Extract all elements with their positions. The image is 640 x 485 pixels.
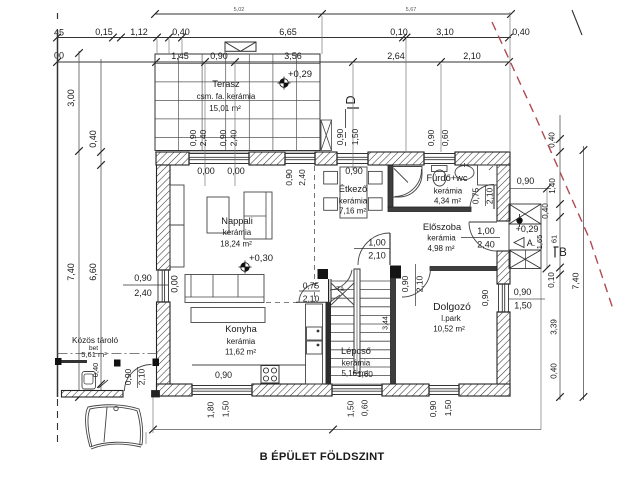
svg-text:0,90: 0,90	[514, 287, 532, 297]
entry landing steps	[509, 204, 541, 269]
level marker +0,29 entry	[516, 217, 522, 223]
svg-text:2,40: 2,40	[477, 240, 495, 250]
svg-text:0,90: 0,90	[134, 273, 152, 283]
svg-text:2,40: 2,40	[198, 129, 208, 146]
top wall / right corner	[455, 152, 510, 165]
svg-text:Étkező: Étkező	[339, 184, 367, 194]
svg-text:0,40: 0,40	[88, 130, 98, 148]
left dim line 0,40/6,60	[100, 59, 102, 397]
svg-text:1,50: 1,50	[350, 128, 360, 145]
dim row 1 top	[155, 13, 511, 15]
storage post 3	[153, 359, 160, 367]
svg-text:1,50: 1,50	[346, 400, 356, 417]
door bathroom 0,75/2,10	[493, 185, 495, 209]
right wall lower	[497, 312, 510, 396]
svg-text:0,40: 0,40	[541, 203, 550, 219]
svg-text:kerámia: kerámia	[434, 187, 463, 196]
chair etkezo 1	[324, 171, 338, 184]
left wall upper	[157, 165, 171, 270]
svg-text:5,02: 5,02	[234, 7, 245, 13]
svg-text:15,01 m²: 15,01 m²	[209, 104, 241, 113]
entry door 1,00/2,40	[469, 221, 497, 223]
svg-text:0,90: 0,90	[188, 129, 198, 146]
stair x brace	[331, 283, 354, 305]
top wall segment 3	[315, 152, 337, 165]
svg-text:Dolgozó: Dolgozó	[433, 302, 471, 313]
svg-text:00: 00	[54, 51, 64, 61]
svg-text:Fürdő+wc: Fürdő+wc	[426, 173, 467, 183]
window etkezo left	[285, 152, 315, 165]
svg-text:7,40: 7,40	[571, 272, 581, 289]
svg-text:0,90: 0,90	[517, 176, 535, 186]
svg-text:61: 61	[550, 235, 559, 243]
stair center divider	[354, 269, 360, 373]
top wall segment 2	[249, 152, 285, 165]
bottom dim line	[153, 429, 541, 431]
svg-text:1,65: 1,65	[535, 235, 544, 250]
svg-text:0,90: 0,90	[210, 51, 228, 61]
svg-text:0,75: 0,75	[303, 281, 320, 291]
kitchen counter bottom	[192, 364, 306, 366]
svg-text:+0,29: +0,29	[516, 224, 539, 234]
bottom wall left corner	[157, 384, 193, 396]
bottom wall segment 3	[382, 384, 429, 396]
right dim line inner	[559, 115, 561, 400]
dashed partition nappali/etkezo	[314, 166, 316, 302]
terrace floor grid Terasz	[155, 54, 320, 152]
svg-text:kerámia: kerámia	[342, 359, 371, 368]
svg-text:2,40: 2,40	[297, 169, 307, 186]
right dim connector line	[546, 189, 548, 269]
dining table etkezo	[340, 167, 367, 218]
svg-text:1,50: 1,50	[221, 400, 231, 417]
svg-text:kerámia: kerámia	[227, 337, 256, 346]
shower	[392, 167, 422, 198]
svg-text:1,00: 1,00	[477, 226, 495, 236]
door etkezo to stair hall 1,00/2,10	[389, 233, 391, 265]
svg-text:+0,30: +0,30	[249, 253, 273, 264]
window etkezo right	[337, 152, 368, 165]
window stairs bottom	[332, 384, 382, 396]
svg-text:0,60: 0,60	[440, 129, 450, 146]
svg-text:0,90: 0,90	[426, 129, 436, 146]
svg-text:Lépcső: Lépcső	[341, 346, 371, 356]
svg-text:10,52 m²: 10,52 m²	[433, 325, 465, 334]
window bathroom	[424, 152, 455, 165]
bottom wall segment 2	[252, 384, 332, 396]
washbasin bathroom	[455, 166, 474, 180]
stair treads Lepcso	[331, 281, 391, 384]
svg-text:0,75: 0,75	[471, 187, 481, 204]
table konyha	[191, 308, 265, 323]
svg-text:3,10: 3,10	[436, 27, 454, 37]
chair etkezo 3	[324, 198, 338, 211]
svg-text:0,10: 0,10	[547, 272, 556, 288]
stair right wall / dolgozo wall	[391, 278, 396, 384]
toilet	[432, 166, 448, 172]
chair etkezo 4	[368, 198, 382, 211]
top wall segment left corner	[156, 152, 189, 165]
black diagonal mark top right	[572, 10, 582, 35]
svg-text:l.park: l.park	[441, 314, 462, 323]
svg-text:+0,29: +0,29	[288, 69, 312, 80]
storage post 1	[55, 358, 62, 365]
section arrow A	[514, 238, 524, 248]
svg-text:6,60: 6,60	[88, 263, 98, 281]
svg-text:3,56: 3,56	[284, 51, 302, 61]
svg-text:2,10: 2,10	[368, 251, 386, 261]
kitchen counter right with sink	[306, 304, 323, 384]
door dolgozo 0,90/2,10	[402, 268, 431, 297]
storage bottom wall right	[152, 391, 160, 398]
svg-text:kerámia: kerámia	[339, 197, 368, 206]
door konyha 0,75/2,10	[299, 284, 318, 303]
svg-text:1,50: 1,50	[514, 301, 532, 311]
svg-text:0,15: 0,15	[95, 27, 113, 37]
washing machine	[478, 165, 498, 185]
svg-text:1,12: 1,12	[130, 27, 148, 37]
stair left wall	[328, 279, 330, 302]
dim row 2 top	[57, 37, 511, 39]
interior wall etkezo/bathroom	[388, 165, 393, 208]
window dolgozo bottom	[429, 384, 459, 396]
svg-text:0,60: 0,60	[360, 399, 370, 416]
svg-text:0,40: 0,40	[512, 27, 530, 37]
car	[86, 405, 143, 449]
svg-text:2,10: 2,10	[485, 187, 495, 204]
stair wall block right	[390, 266, 401, 279]
svg-text:0,40: 0,40	[91, 363, 100, 378]
svg-text:0,90: 0,90	[284, 169, 294, 186]
svg-text:A.: A.	[527, 238, 536, 248]
level marker +0,29 terrace	[278, 77, 291, 90]
storage washbasin	[82, 372, 96, 390]
armchair nappali	[207, 197, 229, 233]
svg-text:7,16 m²: 7,16 m²	[339, 207, 366, 216]
svg-text:2,10: 2,10	[415, 275, 425, 292]
storage dashed roof line	[58, 353, 159, 355]
svg-text:0,90: 0,90	[215, 370, 232, 380]
svg-text:1,00: 1,00	[368, 238, 386, 248]
svg-text:1,80: 1,80	[206, 401, 216, 418]
window konyha bottom	[192, 384, 252, 396]
interior wall bathroom bottom	[388, 207, 471, 212]
red setback dashed line	[492, 22, 614, 312]
roof mark above terrace	[225, 42, 256, 51]
dashed partition nappali/konyha	[266, 302, 299, 304]
window nappali left	[157, 270, 171, 302]
svg-text:csm. fa. kerámia: csm. fa. kerámia	[197, 92, 256, 101]
svg-text:0,90: 0,90	[428, 400, 438, 417]
svg-text:45: 45	[54, 28, 64, 38]
svg-text:3,00: 3,00	[66, 89, 76, 107]
svg-text:0,90: 0,90	[345, 166, 363, 176]
svg-text:Nappali: Nappali	[221, 216, 253, 226]
svg-text:4,98 m²: 4,98 m²	[427, 244, 454, 253]
svg-text:Terasz: Terasz	[212, 79, 240, 89]
dim row 3 top	[57, 61, 510, 63]
svg-text:kerámia: kerámia	[223, 228, 252, 237]
svg-text:1,50: 1,50	[443, 399, 453, 416]
svg-text:11,62 m²: 11,62 m²	[225, 348, 256, 357]
svg-text:0,90: 0,90	[400, 275, 410, 292]
svg-text:0,00: 0,00	[227, 166, 245, 176]
right wall mid	[497, 251, 510, 284]
svg-text:2,64: 2,64	[387, 51, 405, 61]
level marker +0,30 nappali	[239, 261, 252, 274]
svg-text:kerámia: kerámia	[427, 234, 456, 243]
left dim line 3,00/7,40	[78, 51, 80, 397]
chair etkezo 2	[368, 171, 382, 184]
svg-text:3,39: 3,39	[550, 319, 559, 335]
svg-text:D: D	[344, 95, 358, 104]
svg-text:2,40: 2,40	[229, 129, 239, 146]
corner sofa nappali	[244, 192, 272, 239]
right wall upper	[497, 165, 510, 221]
svg-text:0,00: 0,00	[170, 275, 180, 293]
svg-text:7,40: 7,40	[66, 263, 76, 281]
svg-text:3,44: 3,44	[383, 316, 390, 330]
svg-text:0,40: 0,40	[172, 27, 190, 37]
left wall lower	[157, 302, 171, 396]
svg-text:2,40: 2,40	[134, 288, 152, 298]
storage post 2	[114, 360, 121, 367]
svg-text:18,24 m²: 18,24 m²	[220, 240, 252, 249]
svg-text:6,65: 6,65	[279, 27, 297, 37]
top wall segment 4	[368, 152, 424, 165]
bottom wall right corner	[459, 384, 510, 396]
svg-text:0,90: 0,90	[335, 128, 345, 145]
svg-text:4,34 m²: 4,34 m²	[434, 197, 461, 206]
svg-text:1,60: 1,60	[357, 370, 373, 379]
svg-text:0,90: 0,90	[123, 368, 133, 385]
svg-text:5,61 m²: 5,61 m²	[81, 350, 107, 359]
right dim line outer 7,40	[583, 146, 585, 400]
stair wall block left	[318, 269, 329, 279]
svg-text:0,10: 0,10	[390, 27, 408, 37]
svg-text:0,00: 0,00	[197, 166, 215, 176]
wall	[62, 391, 124, 398]
terrace side steps	[321, 120, 332, 151]
sofa nappali	[185, 275, 264, 303]
svg-text:Tá.: Tá.	[336, 286, 346, 293]
svg-text:Előszoba: Előszoba	[423, 222, 462, 232]
svg-text:B ÉPÜLET FÖLDSZINT: B ÉPÜLET FÖLDSZINT	[260, 450, 385, 463]
svg-text:5,67: 5,67	[406, 7, 417, 13]
extension lines	[157, 12, 510, 186]
section marker B	[554, 246, 559, 248]
window dolgozo right	[497, 284, 510, 312]
storage beam	[62, 360, 88, 363]
svg-text:0,90: 0,90	[218, 129, 228, 146]
svg-text:2,10: 2,10	[463, 51, 481, 61]
stove	[261, 366, 279, 384]
svg-text:2,10: 2,10	[137, 368, 147, 385]
shelf left wall nappali	[170, 185, 184, 225]
svg-text:Konyha: Konyha	[225, 324, 257, 334]
svg-text:0,40: 0,40	[550, 363, 559, 379]
window nappali top	[189, 152, 249, 165]
svg-text:1,45: 1,45	[171, 51, 189, 61]
svg-text:0,90: 0,90	[480, 289, 490, 306]
property boundary line left	[57, 13, 59, 19]
door storage 0,90/2,10	[125, 365, 152, 392]
interior wall eloszoba/dolgozo	[430, 267, 497, 271]
stair entry door swing	[330, 270, 352, 290]
